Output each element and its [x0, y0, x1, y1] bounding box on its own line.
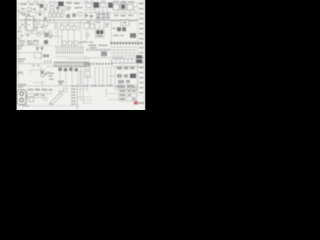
value labels in U11 row2	[117, 74, 136, 78]
transistor Q6	[39, 13, 42, 16]
wire low-left	[17, 73, 24, 75]
pin dots row center-right	[84, 63, 113, 65]
crystal Y1	[50, 2, 64, 6]
resistor R3	[67, 2, 72, 9]
capacitor C5	[62, 6, 66, 10]
wire left margin vertical	[20, 20, 22, 40]
diode D1	[40, 4, 43, 8]
IC U8	[112, 20, 138, 26]
value labels in U11 row3	[118, 80, 130, 83]
IC U10	[54, 62, 89, 66]
value label below J5	[22, 105, 29, 107]
wire from Q5	[30, 70, 46, 86]
diode D6	[44, 40, 48, 44]
transistor Q1	[37, 33, 49, 38]
wire bottom edge	[17, 105, 80, 107]
connector J5	[17, 90, 28, 105]
capacitor C13	[68, 41, 72, 45]
value labels right of U1	[21, 24, 44, 30]
pin dots row left	[44, 61, 51, 63]
wire top-right-mid	[84, 7, 112, 13]
pin label column left of bus	[71, 85, 76, 104]
capacitor C3	[50, 6, 54, 9]
bus corner wires	[77, 70, 92, 103]
net labels top-right	[113, 1, 134, 3]
capacitor C16	[85, 71, 90, 76]
value labels right mid	[112, 28, 124, 37]
net labels top-left	[20, 3, 39, 9]
net labels low-left	[17, 72, 26, 88]
net labels left lower	[17, 58, 25, 62]
net labels mid-left	[17, 45, 23, 49]
wire right of U1	[25, 20, 46, 32]
logo red mark	[134, 101, 144, 105]
IC U11 block right	[115, 66, 137, 89]
connector capsule J4	[111, 55, 142, 63]
relay K1	[95, 29, 104, 37]
wire bottom-left	[26, 94, 52, 100]
capacitor C1	[27, 8, 36, 11]
small box bottom-middle	[63, 88, 67, 91]
wire verticals center-low	[95, 66, 111, 86]
wire above U10	[66, 58, 90, 60]
title block table	[119, 85, 137, 101]
wire risers center	[58, 22, 80, 44]
capacitor C15	[85, 65, 90, 70]
value labels right-of-K1	[105, 24, 109, 28]
resistor R5	[28, 41, 32, 44]
IC U1 internal marks	[28, 19, 31, 25]
transistor Q5	[41, 71, 50, 77]
wire top-left	[20, 8, 46, 16]
value labels under-U2	[86, 21, 100, 23]
connector strip J3	[110, 42, 143, 45]
component row below U10	[58, 68, 78, 72]
connector J2 pin stubs right edge	[139, 3, 143, 93]
diode D2	[66, 14, 70, 18]
diode D8	[40, 47, 44, 51]
value labels mid-left low	[32, 65, 40, 66]
IC U4	[84, 23, 94, 28]
diode D9	[44, 17, 48, 20]
capacitor C17	[30, 97, 34, 102]
resistor R6	[34, 40, 38, 44]
resistor array RN2	[54, 47, 84, 53]
capacitor C4	[56, 6, 59, 9]
capacitor C9	[72, 23, 76, 30]
value labels in U11 row4	[116, 85, 133, 88]
resistor R9	[22, 13, 30, 15]
transistor Q2	[72, 13, 76, 17]
resistor R10	[49, 31, 52, 34]
bus wires right section	[110, 47, 136, 56]
resistor R4	[74, 2, 80, 8]
pin labels row low center	[84, 85, 113, 87]
wire risers Q1	[44, 17, 74, 47]
transistor Q7	[86, 33, 90, 37]
resistor R1	[38, 5, 48, 8]
IC U5	[113, 4, 119, 10]
wire bottom right leads	[106, 88, 119, 100]
IC U7	[127, 4, 133, 10]
value labels mid-center-left	[49, 35, 53, 39]
pin tick row above U10	[57, 56, 86, 58]
IC U3	[96, 13, 110, 19]
resistor R7	[58, 81, 64, 85]
value labels upper-left row2	[22, 8, 48, 10]
resistor R8	[84, 14, 93, 17]
wire stub center	[50, 31, 62, 37]
wire below U1	[24, 31, 48, 34]
value labels center mid	[89, 45, 108, 49]
value label caps row	[79, 42, 83, 44]
transistor Q4	[101, 51, 107, 56]
value labels top-right	[114, 15, 133, 17]
wire near Q3	[41, 53, 56, 67]
capacitor C12	[62, 41, 66, 45]
wire into U11	[108, 75, 115, 77]
value labels in U11 row1	[117, 67, 135, 70]
net labels left margin	[17, 11, 20, 40]
specks above frame	[27, 1, 44, 2]
IC U1	[24, 16, 37, 30]
capacitor C14	[74, 41, 78, 45]
value labels mid-top extra	[67, 7, 83, 11]
wire bus left lower	[17, 63, 52, 65]
capacitor C2	[44, 19, 48, 29]
resistor bottoms RN2	[57, 52, 83, 54]
capacitor C8	[66, 23, 70, 30]
wire main horizontal bus	[19, 19, 138, 21]
capacitor C11	[130, 33, 136, 38]
specks top Q2	[85, 1, 106, 2]
capacitor C6	[55, 23, 57, 30]
wire mid-left upper	[17, 45, 52, 47]
wire stubs right of trunk	[77, 86, 86, 89]
diode D7	[36, 47, 40, 51]
diode D4	[117, 27, 121, 31]
value labels left section	[19, 40, 39, 44]
wire top-right	[112, 7, 138, 14]
wire diagonals bottom-middle	[49, 92, 63, 105]
wire mid-left	[17, 51, 38, 53]
IC U6	[120, 3, 126, 10]
crystal Y2	[93, 2, 99, 8]
inductor L1	[78, 12, 82, 16]
wire verticals right of center	[81, 20, 111, 46]
net label left margin 2	[19, 12, 23, 28]
text labels bottom-left	[28, 89, 53, 96]
wire center-right bus	[84, 57, 124, 59]
value labels below U1	[21, 35, 30, 37]
pin header row center	[87, 49, 111, 51]
value labels low center-left	[49, 73, 55, 80]
arrow head	[59, 91, 64, 95]
value labels center	[83, 41, 94, 43]
wire risers Q2	[85, 12, 109, 24]
diode D5	[122, 27, 126, 31]
diode D3	[108, 3, 113, 8]
wire long low bus	[17, 85, 118, 87]
transistor Q3	[44, 54, 49, 57]
wire vertical trunk	[76, 84, 78, 110]
wire mid-top	[48, 9, 66, 13]
resistor array RN1	[49, 13, 64, 17]
wire stubs top-left	[36, 8, 44, 17]
resistor R2	[36, 20, 40, 23]
wire right lower bus	[112, 66, 144, 68]
value label bottom-middle	[49, 103, 53, 104]
capacitor C10	[100, 3, 106, 7]
wire verticals below component row	[60, 66, 81, 86]
capacitor C7	[60, 23, 64, 30]
wire second bus	[48, 22, 84, 24]
wire near Q5	[33, 66, 46, 83]
IC U9	[34, 53, 42, 58]
wire center low	[84, 63, 93, 92]
IC U2	[86, 3, 92, 7]
